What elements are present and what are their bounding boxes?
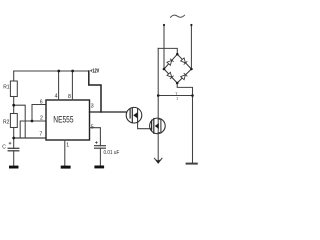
svg-text:3: 3: [91, 104, 94, 110]
svg-text:R2: R2: [3, 120, 10, 126]
svg-text:NE555: NE555: [53, 115, 73, 126]
svg-text:1: 1: [176, 97, 178, 101]
svg-text:+12V: +12V: [90, 68, 100, 74]
svg-text:1: 1: [66, 142, 69, 148]
svg-text:4: 4: [55, 94, 58, 100]
svg-text:6: 6: [40, 99, 43, 105]
svg-text:2: 2: [40, 115, 43, 121]
svg-text:R1: R1: [3, 85, 10, 91]
svg-text:0.01 uF: 0.01 uF: [104, 150, 120, 156]
svg-text:7: 7: [39, 131, 42, 137]
svg-text:8: 8: [68, 94, 71, 100]
svg-text:C: C: [2, 145, 6, 151]
svg-text:5: 5: [91, 125, 94, 131]
